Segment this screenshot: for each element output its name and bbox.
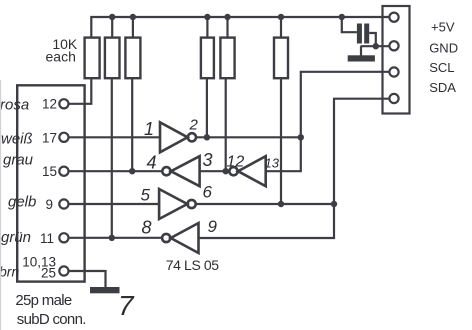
svg-text:4: 4 xyxy=(147,153,157,173)
wire capacitor right plate to GND row xyxy=(369,33,376,46)
resistor R6 xyxy=(274,38,288,79)
op-amp/inverter U1A 74LS05 (pins 1,2) xyxy=(160,122,188,152)
wire inverter A output to SCL vertical xyxy=(196,136,301,138)
ground symbol bottom left xyxy=(90,287,120,293)
wire R5 top stub xyxy=(226,17,228,38)
wire ground stub top right xyxy=(360,46,362,55)
wire SCL vertical and stub to SCL pin xyxy=(266,72,390,171)
wire pin 11 to inverter E output xyxy=(69,237,163,239)
wire R2 top stub xyxy=(111,17,113,38)
pin 11 circle xyxy=(59,233,68,242)
svg-text:17: 17 xyxy=(42,131,57,146)
svg-text:GND: GND xyxy=(429,41,458,56)
svg-text:25: 25 xyxy=(41,266,56,281)
svg-text:12: 12 xyxy=(42,96,57,111)
junction node R4 / inverter A output xyxy=(204,134,210,140)
pin 12 circle xyxy=(59,99,68,108)
wire R4 top stub xyxy=(206,17,208,38)
svg-text:SCL: SCL xyxy=(429,60,454,75)
svg-text:weiß: weiß xyxy=(1,131,33,148)
svg-text:brn: brn xyxy=(0,264,19,280)
svg-text:+5V: +5V xyxy=(431,20,455,35)
wire R1 bottom to pin 12 xyxy=(69,78,92,104)
pin SCL circle xyxy=(389,67,398,76)
resistor R2 xyxy=(105,38,120,79)
wire pin 9 to inverter D input xyxy=(69,203,160,205)
svg-text:each: each xyxy=(46,49,76,65)
svg-text:grau: grau xyxy=(3,152,34,169)
pin 9 circle xyxy=(59,199,68,208)
junction node SCL vertical / A output row xyxy=(298,134,304,140)
svg-text:gelb: gelb xyxy=(8,194,36,211)
junction node SDA vertical / D output row xyxy=(331,201,337,207)
svg-text:8: 8 xyxy=(142,218,152,238)
wire inverter C output to inverter B input xyxy=(200,170,230,172)
op-amp/inverter U1B 74LS05 (pins 3,4) xyxy=(171,156,200,186)
junction node rail-R2 xyxy=(109,14,115,20)
pin 25 circle xyxy=(59,266,68,275)
svg-text:rosa: rosa xyxy=(0,97,29,114)
wire R3 bottom to pin 15 row xyxy=(131,78,133,171)
op-amp/inverter U1D 74LS05 (pins 9,8) xyxy=(171,223,199,253)
junction node R2 / pin 11 row xyxy=(109,235,115,241)
junction node rail-R4 xyxy=(204,14,210,20)
wire pin 17 to inverter A input xyxy=(69,136,160,138)
svg-text:7: 7 xyxy=(118,290,135,321)
resistor R1 xyxy=(85,38,100,79)
left connector box 25p subD xyxy=(17,85,84,281)
svg-text:6: 6 xyxy=(203,183,213,202)
wire capacitor tap from rail xyxy=(342,17,357,32)
wire SDA vertical with stub to SDA pin and down to inverter E input xyxy=(199,99,390,238)
wire pin 25 to ground xyxy=(69,271,106,288)
junction node capacitor / GND row xyxy=(373,43,379,49)
junction node rail-capacitor xyxy=(339,14,345,20)
svg-text:SDA: SDA xyxy=(429,80,456,95)
svg-text:9: 9 xyxy=(208,217,218,236)
ground symbol top right xyxy=(348,55,375,61)
pin SDA circle xyxy=(389,94,398,103)
svg-text:grün: grün xyxy=(1,229,31,246)
svg-text:2: 2 xyxy=(189,117,199,134)
wire R4 bottom to inverter A output row xyxy=(206,78,208,137)
wire R6 bottom to SDA row xyxy=(280,78,282,204)
capacitor C1 plates xyxy=(357,24,362,44)
svg-text:74 LS 05: 74 LS 05 xyxy=(166,257,219,273)
wire R6 top stub xyxy=(280,17,282,38)
wire R3 top stub xyxy=(132,17,134,38)
op-amp/inverter U1F 74LS05 (pins 13,12) xyxy=(238,156,266,186)
svg-text:5: 5 xyxy=(141,186,151,205)
svg-text:15: 15 xyxy=(42,164,57,179)
pin 17 circle xyxy=(59,133,68,142)
resistor R5 xyxy=(220,38,234,79)
junction node rail-R6 xyxy=(278,14,284,20)
svg-text:13: 13 xyxy=(265,156,280,171)
wire R5 bottom to inverter B/C row xyxy=(225,78,227,171)
svg-text:3: 3 xyxy=(203,150,213,170)
junction node R5 / B-C row xyxy=(223,168,229,174)
svg-text:1: 1 xyxy=(144,119,154,139)
svg-text:25p male: 25p male xyxy=(15,292,71,309)
pin GND circle xyxy=(389,41,398,50)
svg-text:12: 12 xyxy=(227,154,245,171)
wire R2 bottom to pin 11 row xyxy=(111,78,113,238)
wire inverter D output to SDA vertical xyxy=(196,203,334,205)
resistor R4 xyxy=(201,38,214,79)
svg-text:subD conn.: subD conn. xyxy=(17,311,86,328)
svg-text:9: 9 xyxy=(45,197,53,212)
op-amp/inverter U1C 74LS05 (pins 5,6) xyxy=(159,189,187,219)
wire +5V top rail xyxy=(91,17,389,38)
junction node rail-R3 xyxy=(130,14,136,20)
junction node R3 / pin 15 row xyxy=(129,168,135,174)
junction node R6 / SDA row xyxy=(278,201,284,207)
right connector box 4-pin header xyxy=(383,6,410,114)
scanner edge artifact xyxy=(0,80,2,330)
pin +5V circle xyxy=(389,13,398,22)
junction node rail-R5 xyxy=(224,14,230,20)
wire inverter B output to pin 15 xyxy=(69,170,163,172)
pin 15 circle xyxy=(59,167,68,176)
resistor R3 xyxy=(125,38,140,79)
wire GND row to GND pin xyxy=(361,45,390,47)
svg-text:11: 11 xyxy=(40,231,54,246)
